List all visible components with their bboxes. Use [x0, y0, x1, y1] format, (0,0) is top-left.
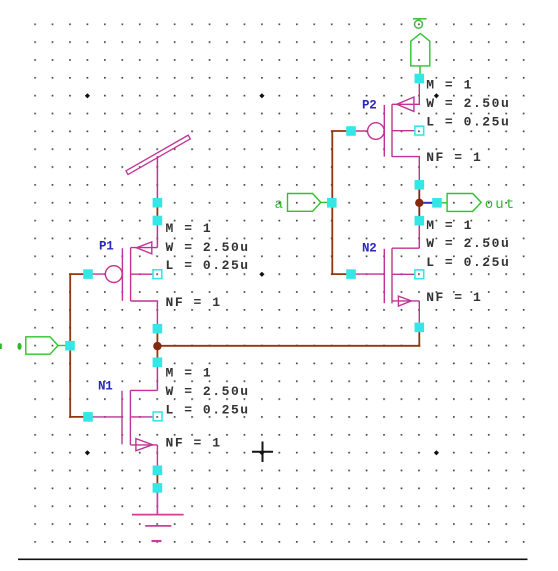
svg-text:L = 0.25u: L = 0.25u — [166, 403, 250, 418]
transistor N1 (NMOS) — [92, 390, 157, 466]
svg-text:M = 1: M = 1 — [426, 77, 473, 92]
pin b — [26, 337, 66, 354]
svg-text:P2: P2 — [362, 99, 376, 113]
wire node out to out pin — [419, 202, 433, 204]
node X junction — [153, 342, 161, 350]
svg-text:a: a — [275, 197, 286, 213]
label vdd net glyph — [413, 19, 427, 28]
sheet boundary line — [18, 558, 528, 560]
svg-text:NF = 1: NF = 1 — [166, 295, 222, 310]
svg-text:P1: P1 — [99, 239, 113, 253]
transistor N2 (NMOS) — [351, 248, 419, 322]
ground — [132, 492, 184, 541]
svg-text:L = 0.25u: L = 0.25u — [166, 258, 250, 273]
svg-text:M = 1: M = 1 — [166, 221, 213, 236]
svg-text:W = 2.50u: W = 2.50u — [426, 236, 510, 251]
svg-text:W = 2.50u: W = 2.50u — [166, 384, 250, 399]
bulk pin squares — [153, 126, 424, 421]
wire node X to N1 drain — [156, 367, 158, 391]
wire N2 source to node X (long feedback wire) — [157, 332, 420, 347]
pin a — [288, 194, 328, 212]
origin crosshair — [252, 442, 273, 463]
node out junction — [415, 199, 423, 207]
svg-text:NF = 1: NF = 1 — [166, 436, 222, 451]
svg-text:NF = 1: NF = 1 — [426, 290, 482, 305]
svg-text:NF = 1: NF = 1 — [426, 150, 482, 165]
pin out — [441, 194, 482, 212]
wire input b net (P1 gate to N1 gate) — [70, 273, 88, 418]
svg-text:L = 0.25u: L = 0.25u — [426, 114, 510, 129]
wire input a net (P2 gate to N2 gate) — [332, 130, 351, 275]
svg-text:out: out — [485, 197, 517, 213]
label b — [17, 343, 21, 350]
svg-text:M = 1: M = 1 — [426, 218, 473, 233]
transistor P1 (PMOS) — [88, 242, 157, 325]
svg-text:W = 2.50u: W = 2.50u — [426, 96, 510, 111]
wire P1 drain to node X — [156, 334, 158, 358]
svg-text:L = 0.25u: L = 0.25u — [426, 255, 510, 270]
svg-text:W = 2.50u: W = 2.50u — [166, 240, 250, 255]
wire node out to N2 drain — [418, 226, 420, 249]
svg-text:N1: N1 — [98, 380, 112, 394]
svg-text:N2: N2 — [362, 242, 376, 256]
transistor P2 (PMOS) — [351, 84, 419, 182]
vdd rail symbol (slanted bar) — [126, 135, 190, 174]
wire P2 drain to node out — [418, 189, 420, 217]
wire N1 source to ground — [156, 475, 158, 484]
svg-text:M = 1: M = 1 — [166, 366, 213, 381]
pin vdd — [411, 34, 430, 75]
wire vertex handles — [65, 74, 442, 493]
wire vdd rail to P1 source — [156, 156, 158, 248]
